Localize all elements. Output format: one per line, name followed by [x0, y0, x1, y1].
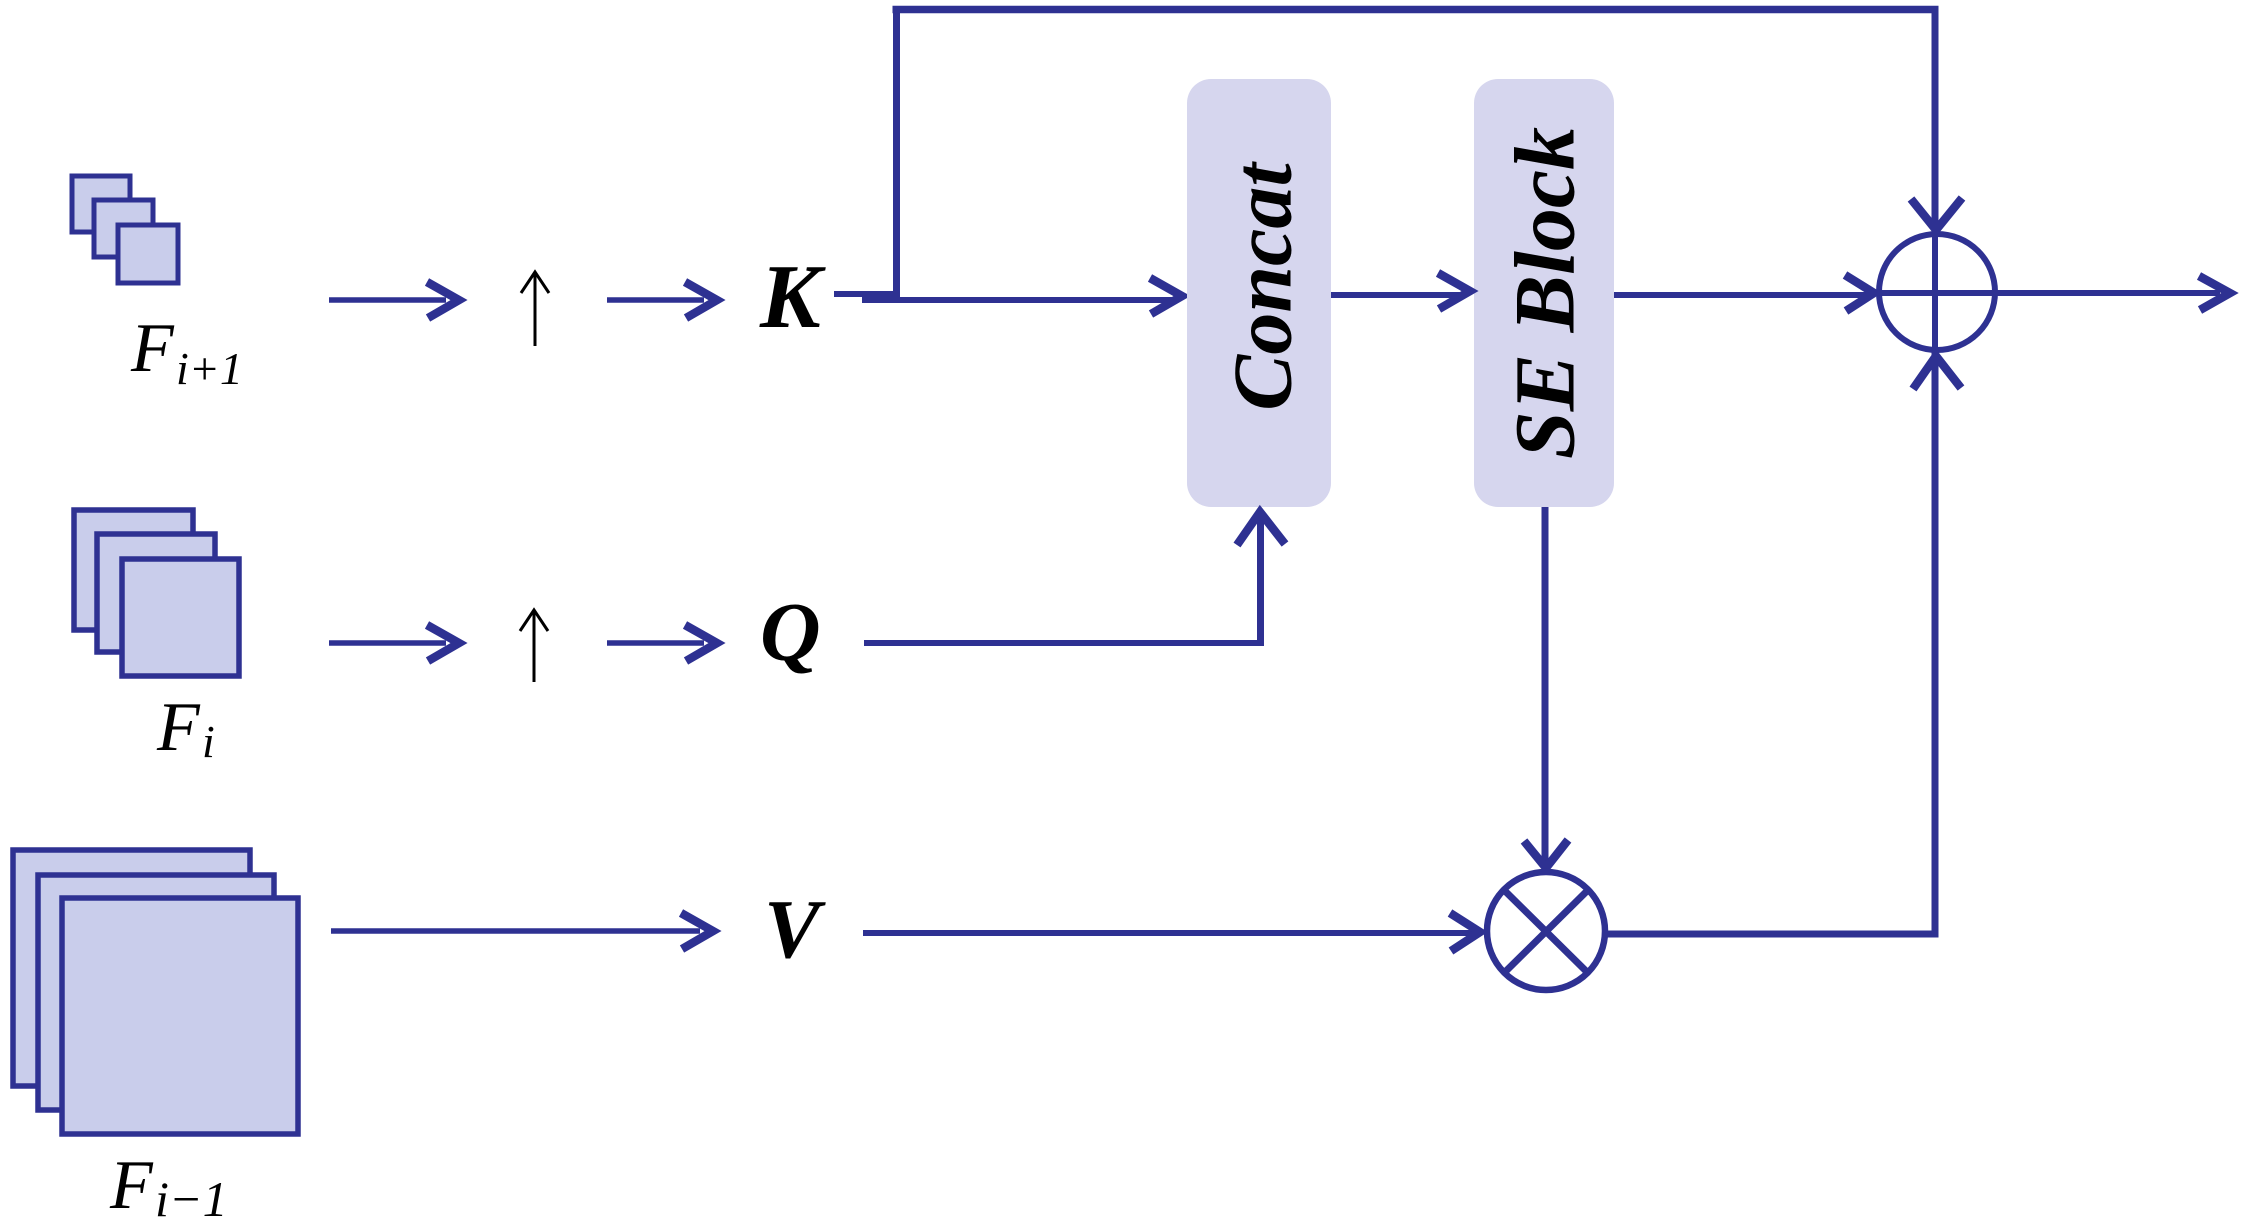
wire K to junction [834, 291, 899, 297]
svg-text:F: F [156, 689, 201, 766]
feature stack F_i-1 square back [13, 850, 250, 1086]
wire feedback vertical right into adder [1932, 10, 1939, 233]
feature stack F_i square middle [97, 534, 215, 652]
feature stack F_i+1 square middle [94, 200, 153, 257]
feature stack F_i+1 square front [118, 225, 178, 283]
arrow Q row to Q [607, 640, 704, 646]
wire Concat to SE Block [1331, 292, 1466, 298]
feature stack F_i square back [74, 510, 193, 630]
SE Block box [1474, 79, 1614, 507]
svg-text:SE Block: SE Block [1497, 127, 1593, 459]
wire SE Block to adder [1614, 292, 1872, 298]
multiplier X stroke 2 [1504, 890, 1588, 973]
multiplier circle [1487, 872, 1605, 990]
svg-text:i−1: i−1 [155, 1171, 228, 1227]
wire V to multiplier [863, 930, 1476, 936]
adder circle [1879, 234, 1995, 350]
wire multiplier to adder vertical [1932, 352, 1939, 934]
arrow V row from stack [331, 928, 700, 934]
wire feedback vertical left [893, 10, 900, 298]
feature stack F_i+1 square back [72, 176, 130, 232]
arrow K row to K [607, 297, 704, 303]
feature stack F_i-1 square middle [38, 875, 274, 1110]
svg-text:i+1: i+1 [176, 343, 243, 394]
wire Q to Concat corner [864, 640, 1264, 646]
svg-text:Concat: Concat [1216, 161, 1309, 411]
arrow Q row from stack [329, 640, 446, 646]
Concat box [1187, 79, 1331, 507]
wire multiplier output horizontal [1605, 931, 1939, 938]
svg-text:i: i [202, 716, 215, 767]
adder plus vertical [1932, 234, 1938, 350]
svg-text:K: K [759, 246, 826, 347]
svg-text:F: F [109, 1147, 154, 1224]
wire feedback top horizontal [893, 6, 1939, 14]
arrow K row from stack [329, 297, 446, 303]
wire Q vertical into Concat [1257, 512, 1264, 646]
feature stack F_i-1 square front [62, 898, 298, 1134]
adder plus horizontal [1879, 290, 1995, 296]
wire junction to Concat [862, 297, 1178, 303]
upsample arrow K row [534, 274, 537, 346]
svg-text:V: V [764, 883, 826, 976]
svg-text:F: F [130, 310, 175, 387]
svg-text:Q: Q [760, 586, 821, 679]
wire adder output [1995, 290, 2220, 296]
wire SE Block down to multiplier [1542, 507, 1549, 866]
upsample arrow Q row [533, 612, 536, 682]
multiplier X stroke 1 [1504, 890, 1588, 973]
feature stack F_i square front [122, 559, 239, 676]
